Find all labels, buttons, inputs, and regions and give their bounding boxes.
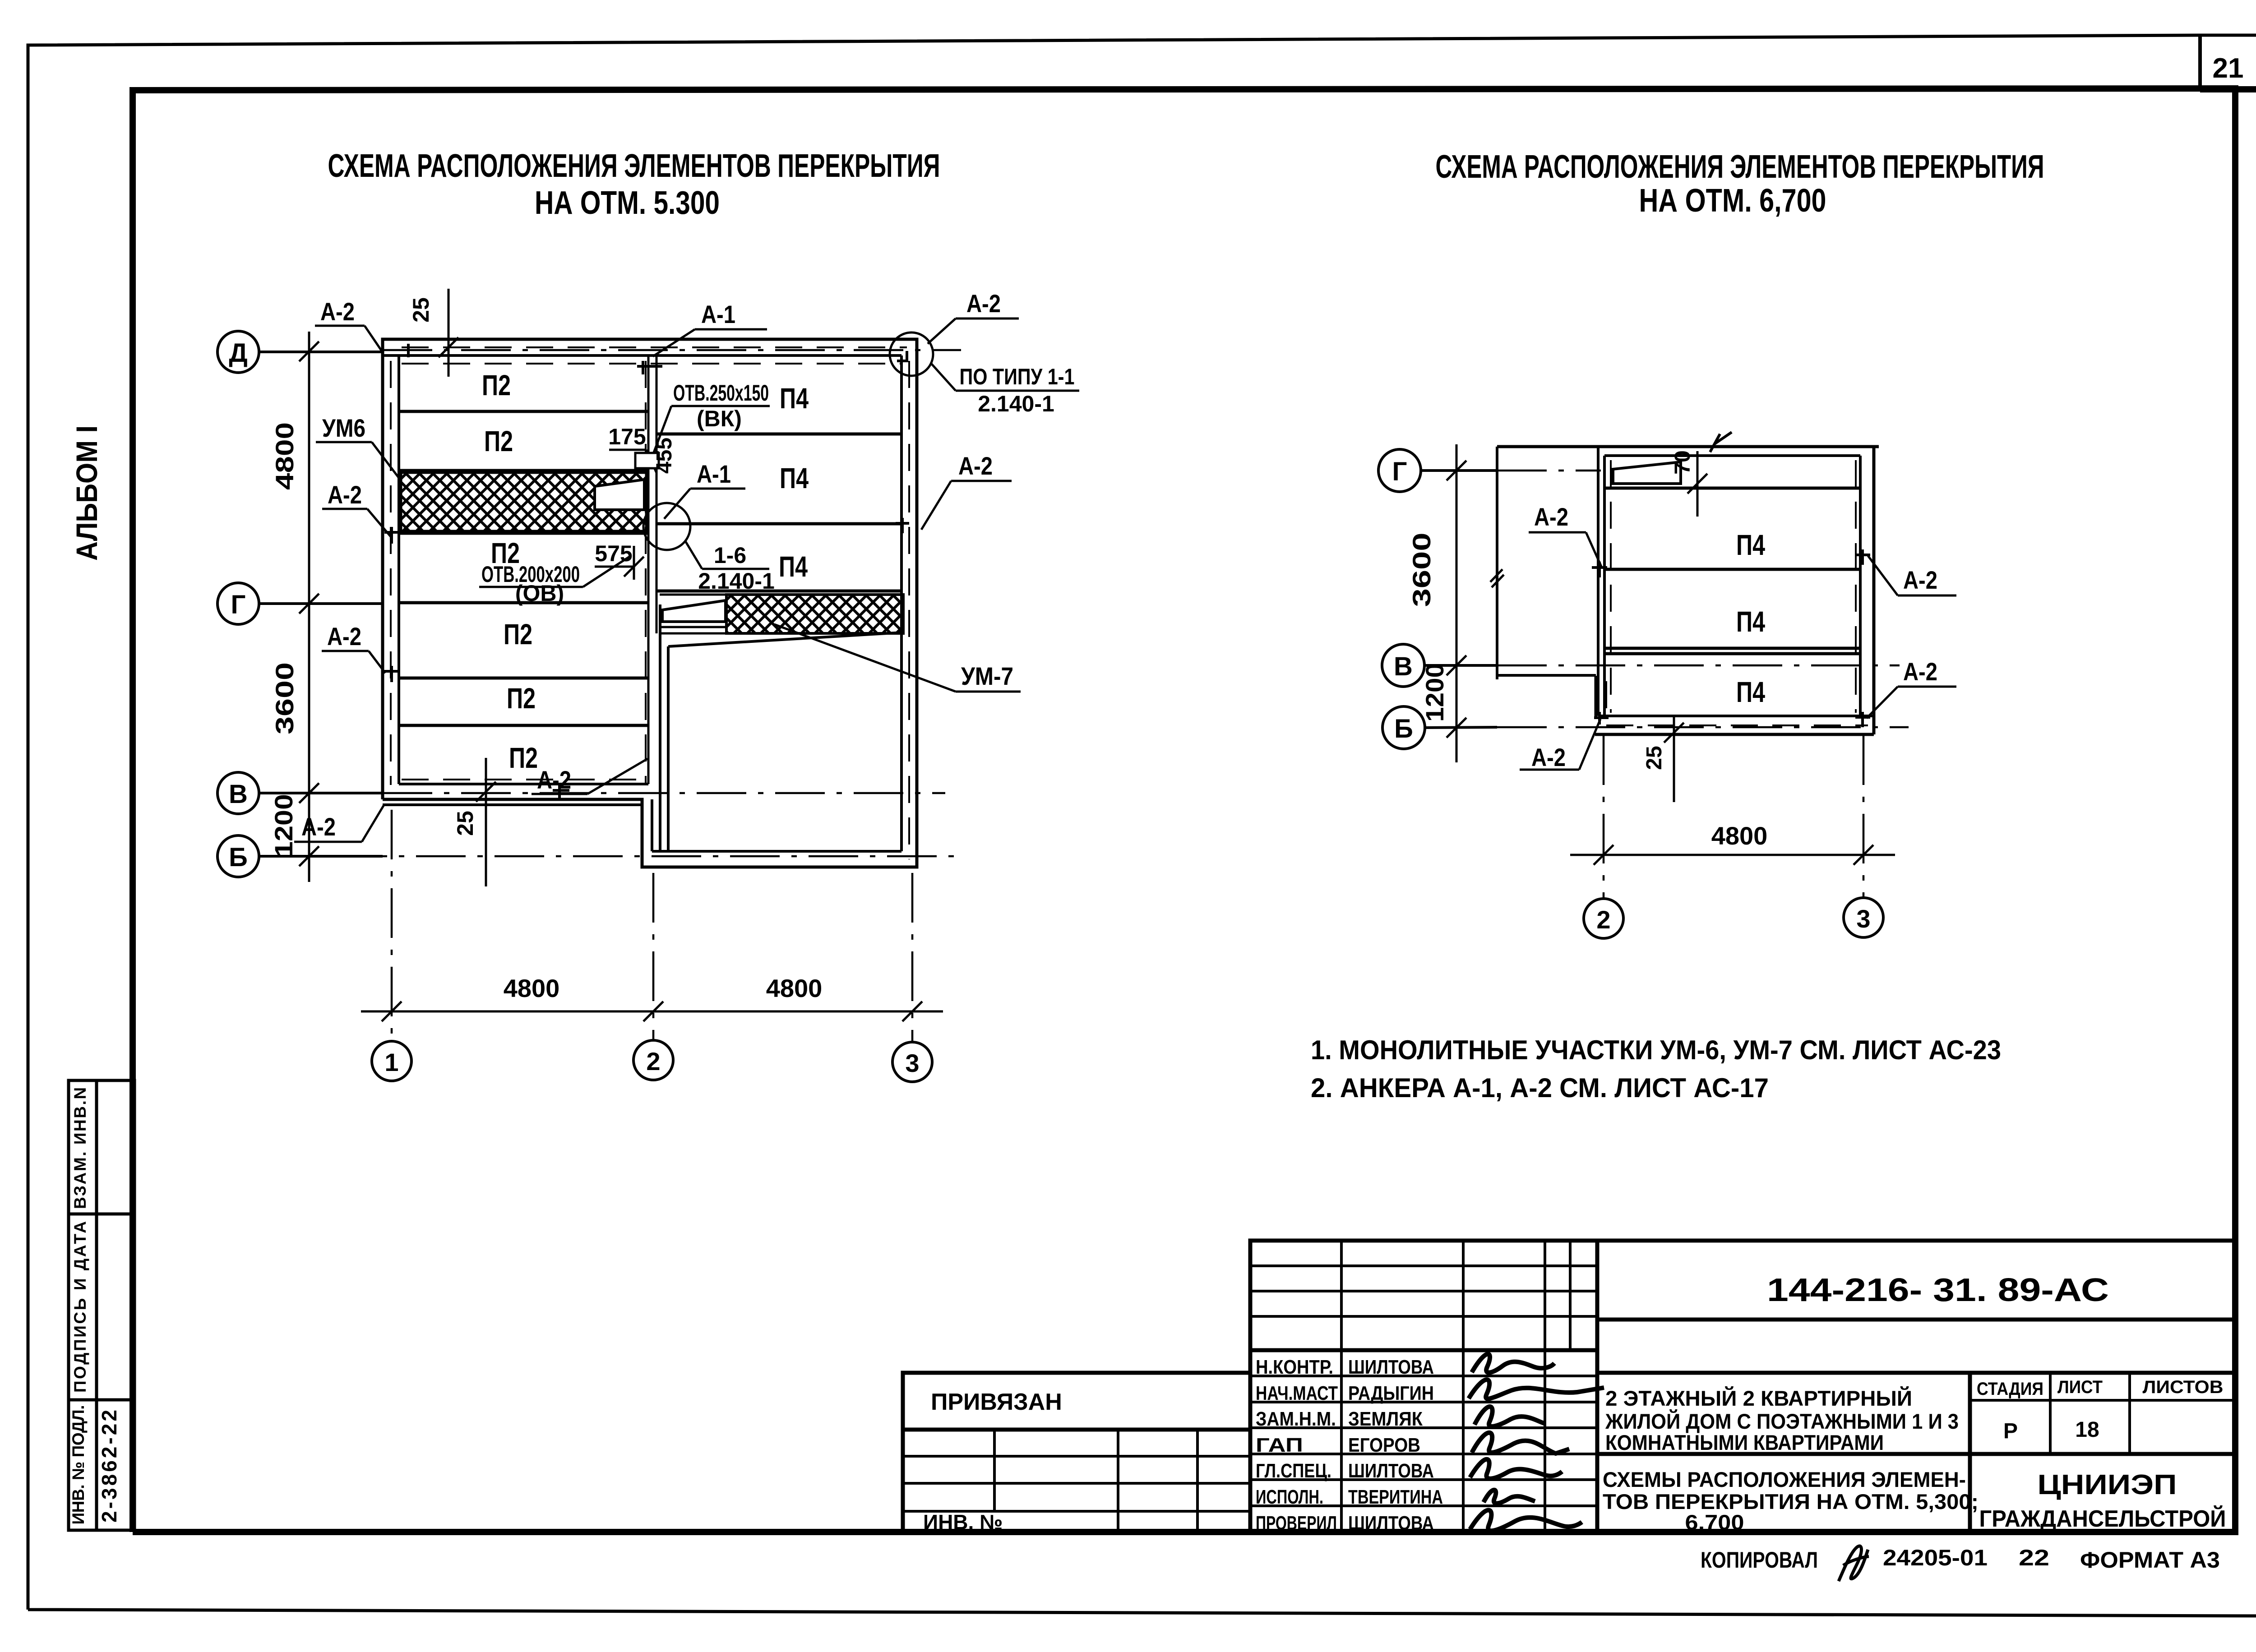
svg-text:П2: П2 xyxy=(482,369,511,401)
svg-text:П2: П2 xyxy=(507,682,536,715)
svg-text:70: 70 xyxy=(1671,450,1695,474)
signature rows labels xyxy=(1256,1356,1338,1534)
svg-text:ЕГОРОВ: ЕГОРОВ xyxy=(1348,1434,1420,1456)
svg-text:ТОВ ПЕРЕКРЫТИЯ НА ОТМ. 5,300;: ТОВ ПЕРЕКРЫТИЯ НА ОТМ. 5,300; xyxy=(1603,1490,1979,1514)
label 175 xyxy=(608,424,656,473)
bottom axis circle 2 xyxy=(1584,899,1623,938)
description texts xyxy=(1603,1386,1979,1534)
svg-text:А-2: А-2 xyxy=(1531,743,1566,771)
svg-text:СХЕМА РАСПОЛОЖЕНИЯ ЭЛЕМЕНТОВ П: СХЕМА РАСПОЛОЖЕНИЯ ЭЛЕМЕНТОВ ПЕРЕКРЫТИЯ xyxy=(1436,149,2044,185)
П4 bay slab joints xyxy=(656,434,901,591)
svg-text:Н.КОНТР.: Н.КОНТР. xyxy=(1256,1356,1333,1378)
sheet number box top right xyxy=(2198,35,2202,89)
label А-2 upper left xyxy=(1529,503,1602,568)
svg-text:В: В xyxy=(1394,652,1413,681)
svg-text:ГРАЖДАНСЕЛЬСТРОЙ: ГРАЖДАНСЕЛЬСТРОЙ xyxy=(1979,1505,2226,1532)
svg-text:П4: П4 xyxy=(1736,605,1765,638)
signatures (squiggles) xyxy=(1469,1354,1604,1531)
axis circle В xyxy=(1382,644,1497,687)
axis 1 dash-dot below plan xyxy=(391,810,393,1041)
svg-text:А-1: А-1 xyxy=(701,300,735,328)
label А-2 right lower xyxy=(1867,657,1956,718)
svg-text:4800: 4800 xyxy=(766,974,823,1002)
svg-text:ИНВ. №: ИНВ. № xyxy=(923,1510,1003,1534)
svg-text:П2: П2 xyxy=(504,618,532,651)
wall hidden dashes xyxy=(391,347,909,859)
svg-text:КОПИРОВАЛ: КОПИРОВАЛ xyxy=(1701,1547,1818,1573)
svg-text:Г: Г xyxy=(231,590,246,619)
svg-text:ИСПОЛН.: ИСПОЛН. xyxy=(1256,1486,1323,1508)
svg-text:22: 22 xyxy=(2019,1545,2049,1570)
svg-text:ЗЕМЛЯК: ЗЕМЛЯК xyxy=(1348,1408,1423,1430)
hatched monolithic band УМ-7 xyxy=(726,595,903,633)
svg-text:(ОВ): (ОВ) xyxy=(515,581,564,606)
bottom axis circle 3 xyxy=(1844,898,1883,937)
svg-text:СХЕМЫ РАСПОЛОЖЕНИЯ ЭЛЕМЕН-: СХЕМЫ РАСПОЛОЖЕНИЯ ЭЛЕМЕН- xyxy=(1603,1467,1966,1491)
svg-text:ПРИВЯЗАН: ПРИВЯЗАН xyxy=(931,1389,1062,1415)
axis В dash-dot xyxy=(383,792,945,794)
svg-text:Б: Б xyxy=(1394,714,1413,743)
middle wall axis 2 double line xyxy=(648,355,656,784)
svg-text:1200: 1200 xyxy=(269,794,298,857)
svg-text:21: 21 xyxy=(2213,53,2244,84)
svg-text:2.140-1: 2.140-1 xyxy=(698,568,775,594)
svg-text:3600: 3600 xyxy=(270,662,299,734)
П2 bay slab joints xyxy=(399,411,648,725)
label 1-6 / 2.140-1 xyxy=(685,540,775,594)
svg-text:ЦНИИЭП: ЦНИИЭП xyxy=(2038,1469,2177,1500)
svg-text:НАЧ.МАСТ: НАЧ.МАСТ xyxy=(1256,1382,1338,1404)
axis circle Д xyxy=(217,331,383,373)
svg-text:6,700: 6,700 xyxy=(1685,1510,1744,1534)
axis Д dash-dot through top wall xyxy=(383,349,961,351)
svg-text:А-1: А-1 xyxy=(697,460,731,488)
bottom axis circle 2 xyxy=(633,1040,673,1080)
svg-text:4800: 4800 xyxy=(270,422,299,490)
svg-text:25: 25 xyxy=(408,297,434,323)
label А-2 bottom left xyxy=(1520,719,1600,771)
stairwell void xyxy=(660,605,902,851)
label А-2 bottom left xyxy=(294,806,384,842)
hidden dashes in walls xyxy=(1606,460,1868,725)
small slab piece top strip xyxy=(1613,462,1681,484)
svg-text:ИНВ. № ПОДЛ.: ИНВ. № ПОДЛ. xyxy=(69,1405,88,1525)
label УМ-7 xyxy=(774,624,1021,692)
svg-text:Г: Г xyxy=(1392,457,1407,486)
label по типу 1-1 / 2.140-1 xyxy=(931,364,1079,416)
walls: inner lines xyxy=(383,355,901,851)
svg-text:РАДЫГИН: РАДЫГИН xyxy=(1348,1382,1434,1404)
svg-text:НА ОТМ. 5.300: НА ОТМ. 5.300 xyxy=(535,185,720,221)
svg-text:УМ6: УМ6 xyxy=(322,414,365,442)
label А-2 right xyxy=(921,452,1012,530)
svg-text:А-2: А-2 xyxy=(966,289,1001,318)
svg-text:П2: П2 xyxy=(484,425,513,457)
axis Б dash-dot xyxy=(259,855,963,858)
svg-text:3: 3 xyxy=(1856,904,1870,933)
svg-text:СХЕМА РАСПОЛОЖЕНИЯ ЭЛЕМЕНТОВ П: СХЕМА РАСПОЛОЖЕНИЯ ЭЛЕМЕНТОВ ПЕРЕКРЫТИЯ xyxy=(328,148,940,184)
axis 2 dash-dot vertical xyxy=(1603,735,1605,899)
svg-text:ШИЛТОВА: ШИЛТОВА xyxy=(1348,1460,1434,1482)
svg-text:25: 25 xyxy=(453,811,478,836)
break mark xyxy=(1710,432,1732,452)
label А-2 top left xyxy=(315,297,382,351)
bottom-left margin table xyxy=(69,1080,134,1530)
axis circle Г xyxy=(217,583,383,624)
svg-text:ЖИЛОЙ ДОМ С ПОЭТАЖНЫМИ 1 И 3: ЖИЛОЙ ДОМ С ПОЭТАЖНЫМИ 1 И 3 xyxy=(1605,1409,1959,1433)
svg-text:ФОРМАТ А3: ФОРМАТ А3 xyxy=(2080,1547,2220,1573)
svg-text:П4: П4 xyxy=(1736,529,1765,561)
svg-text:ОТВ.250х150: ОТВ.250х150 xyxy=(673,380,769,406)
vertical dimension line 4800/3600/1200 xyxy=(299,332,319,882)
svg-text:А-2: А-2 xyxy=(1903,657,1937,686)
svg-text:П4: П4 xyxy=(780,462,809,494)
label А-1 top xyxy=(653,300,767,356)
svg-text:ГАП: ГАП xyxy=(1256,1434,1303,1456)
svg-text:ЗАМ.Н.М.: ЗАМ.Н.М. xyxy=(1256,1408,1336,1430)
svg-text:П4: П4 xyxy=(780,382,809,415)
svg-text:ПО ТИПУ 1-1: ПО ТИПУ 1-1 xyxy=(960,364,1075,389)
svg-text:1200: 1200 xyxy=(1420,663,1449,722)
svg-text:П4: П4 xyxy=(779,550,808,583)
svg-text:25: 25 xyxy=(1642,746,1666,770)
svg-text:ЛИСТОВ: ЛИСТОВ xyxy=(2143,1377,2224,1397)
axis circle Г xyxy=(1378,449,1497,492)
svg-text:ВЗАМ. ИНВ.N: ВЗАМ. ИНВ.N xyxy=(71,1087,89,1209)
svg-text:Б: Б xyxy=(229,843,248,872)
bottom axis circle 3 xyxy=(892,1042,932,1082)
label А-2 right upper xyxy=(1868,556,1956,595)
svg-text:ШИЛТОВА: ШИЛТОВА xyxy=(1348,1356,1434,1378)
svg-text:В: В xyxy=(229,780,248,809)
svg-text:3600: 3600 xyxy=(1407,533,1436,607)
axis В dash-dot xyxy=(1497,664,1900,667)
svg-text:А-2: А-2 xyxy=(327,622,361,651)
label А-2 top right xyxy=(928,289,1019,344)
vertical dimension line 3600/1200 xyxy=(1447,444,1504,762)
axis circle В xyxy=(217,772,383,814)
axis 3 dash-dot vertical xyxy=(1863,735,1865,898)
svg-text:УМ-7: УМ-7 xyxy=(961,662,1013,690)
svg-text:СТАДИЯ: СТАДИЯ xyxy=(1977,1379,2043,1399)
svg-text:2-3862-22: 2-3862-22 xyxy=(97,1410,121,1523)
axis circle Б xyxy=(1382,706,1497,749)
hatched monolithic band УМ6 xyxy=(401,472,647,531)
svg-text:ЛИСТ: ЛИСТ xyxy=(2057,1377,2103,1397)
label УМ6 xyxy=(316,414,400,479)
svg-text:1-6: 1-6 xyxy=(714,543,746,568)
svg-text:ТВЕРИТИНА: ТВЕРИТИНА xyxy=(1348,1486,1443,1508)
svg-text:КОМНАТНЫМИ КВАРТИРАМИ: КОМНАТНЫМИ КВАРТИРАМИ xyxy=(1605,1431,1884,1454)
svg-text:А-2: А-2 xyxy=(1534,503,1568,531)
detail circle middle (1-6) xyxy=(643,503,690,550)
bottom axis circle 1 xyxy=(372,1041,411,1081)
svg-text:575: 575 xyxy=(595,541,632,566)
svg-text:3: 3 xyxy=(905,1049,919,1077)
svg-text:ГЛ.СПЕЦ.: ГЛ.СПЕЦ. xyxy=(1256,1460,1331,1482)
bottom dimension line 4800 xyxy=(1570,845,1895,865)
anchor ticks xyxy=(1592,549,1870,727)
svg-text:2: 2 xyxy=(1596,905,1610,934)
svg-text:2: 2 xyxy=(646,1047,660,1075)
hole symbol near middle wall xyxy=(635,453,659,468)
svg-text:4800: 4800 xyxy=(1711,821,1768,850)
white slab piece in УМ6 band xyxy=(595,480,644,510)
axis 2 dash-dot below plan xyxy=(652,873,655,1040)
svg-text:А-2: А-2 xyxy=(958,452,993,480)
svg-text:175: 175 xyxy=(608,424,646,449)
plan outline xyxy=(1497,447,1879,734)
label 575 xyxy=(595,541,644,580)
label А-2 left #2 xyxy=(322,480,392,538)
svg-text:А-2: А-2 xyxy=(1903,566,1937,594)
svg-text:А-2: А-2 xyxy=(320,297,355,326)
walls: outer contour xyxy=(383,339,917,867)
svg-text:2.140-1: 2.140-1 xyxy=(978,391,1054,416)
label отв.250х150 (ВК) xyxy=(653,380,770,455)
svg-text:2 ЭТАЖНЫЙ 2 КВАРТИРНЫЙ: 2 ЭТАЖНЫЙ 2 КВАРТИРНЫЙ xyxy=(1605,1386,1912,1410)
svg-text:ПРОВЕРИЛ: ПРОВЕРИЛ xyxy=(1256,1512,1337,1534)
stamp left block ПРИВЯЗАН xyxy=(903,1373,1250,1532)
white slab piece left of УМ-7 band xyxy=(662,600,726,622)
label отв.200х200 (ОВ) xyxy=(479,556,631,606)
svg-text:455: 455 xyxy=(652,438,676,474)
svg-text:1. МОНОЛИТНЫЕ УЧАСТКИ УМ-6, УМ: 1. МОНОЛИТНЫЕ УЧАСТКИ УМ-6, УМ-7 СМ. ЛИС… xyxy=(1311,1035,2001,1065)
slab joints xyxy=(1604,488,1860,654)
svg-text:18: 18 xyxy=(2075,1418,2099,1442)
svg-text:Р: Р xyxy=(2003,1419,2018,1443)
svg-text:4800: 4800 xyxy=(504,974,560,1002)
axis Г dash-dot xyxy=(1497,470,1601,472)
svg-text:24205-01: 24205-01 xyxy=(1883,1545,1988,1570)
svg-text:НА ОТМ. 6,700: НА ОТМ. 6,700 xyxy=(1639,183,1826,219)
svg-text:Д: Д xyxy=(229,338,247,368)
axis circle Б xyxy=(217,835,383,877)
label А-1 middle xyxy=(664,460,745,519)
svg-text:П4: П4 xyxy=(1736,676,1765,708)
svg-text:А-2: А-2 xyxy=(301,812,336,841)
label А-2 left #3 xyxy=(322,622,385,673)
svg-text:А-2: А-2 xyxy=(328,480,362,509)
axis Б dash-dot xyxy=(1497,726,1909,729)
svg-text:АЛЬБОМ I: АЛЬБОМ I xyxy=(70,425,103,561)
svg-text:ШИЛТОВА: ШИЛТОВА xyxy=(1348,1512,1434,1534)
svg-text:П2: П2 xyxy=(509,742,538,774)
detail circle top right corner xyxy=(890,332,933,376)
anchor tick marks xyxy=(384,344,909,799)
bottom dimension line 4800+4800 xyxy=(361,1001,943,1021)
svg-text:ПОДПИСЬ И ДАТА: ПОДПИСЬ И ДАТА xyxy=(71,1221,89,1393)
svg-text:2. АНКЕРА А-1, А-2 СМ. ЛИСТ АС: 2. АНКЕРА А-1, А-2 СМ. ЛИСТ АС-17 xyxy=(1311,1073,1769,1103)
svg-text:(ВК): (ВК) xyxy=(697,406,742,431)
label А-2 bottom middle xyxy=(532,759,647,794)
svg-text:144-216- 31. 89-АС: 144-216- 31. 89-АС xyxy=(1767,1272,2109,1308)
stamp outline and grid xyxy=(1250,1241,2236,1532)
svg-text:1: 1 xyxy=(384,1048,398,1076)
axis 3 dash-dot below plan xyxy=(911,873,914,1042)
